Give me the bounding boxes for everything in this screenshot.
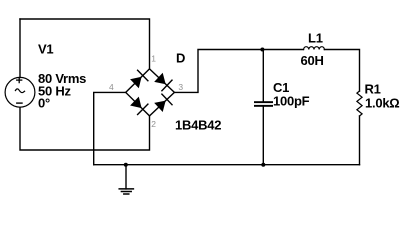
- resistor R1 zigzag: [357, 91, 362, 116]
- svg-text:1: 1: [151, 53, 156, 63]
- wire bridge pin 3 to node D and top-right rail: [174, 50, 303, 93]
- diode D2 (pin1 anode to pin3 cathode): [154, 73, 166, 84]
- junction node D top rail: [260, 48, 264, 52]
- ground stem: [125, 165, 127, 189]
- svg-text:60H: 60H: [301, 53, 324, 68]
- capacitor C1 plates: [254, 101, 273, 103]
- wire bottom ground rail: [94, 164, 360, 166]
- diode D1 (pin4 anode to pin1 cathode): [130, 77, 142, 89]
- wire C1 bottom lead: [262, 107, 264, 165]
- V1 plus sign: [17, 79, 22, 81]
- svg-text:0°: 0°: [38, 96, 50, 111]
- wire top rail V1+ to bridge pin 1: [20, 19, 150, 69]
- wire V1 bottom to bridge pin 2: [20, 107, 150, 150]
- svg-text:2: 2: [151, 119, 156, 129]
- ground bar 2: [121, 191, 131, 193]
- bridge D diamond outline: [126, 69, 175, 116]
- svg-text:V1: V1: [38, 42, 53, 57]
- diode D4 (pin2 anode to pin3 cathode): [154, 101, 166, 112]
- svg-text:4: 4: [109, 82, 114, 92]
- svg-text:1B4B42: 1B4B42: [175, 118, 221, 133]
- V1 minus sign: [17, 102, 22, 104]
- svg-text:3: 3: [178, 82, 183, 92]
- junction ground rail at ground symbol: [124, 163, 128, 167]
- junction ground rail at C1: [261, 163, 265, 167]
- svg-text:1.0kΩ: 1.0kΩ: [365, 96, 399, 111]
- ground bar 1: [119, 188, 133, 190]
- inductor L1 coil: [304, 47, 325, 50]
- wire R1 bottom lead: [359, 116, 361, 165]
- ground bar 3: [124, 193, 129, 195]
- svg-text:100pF: 100pF: [273, 94, 310, 109]
- svg-text:L1: L1: [308, 31, 323, 46]
- wire C1 top lead: [262, 50, 264, 102]
- diode D3 (pin4 anode to pin2 cathode): [130, 97, 142, 109]
- svg-text:D: D: [176, 50, 185, 65]
- V1 sine wave: [15, 89, 24, 93]
- svg-text:R1: R1: [365, 82, 381, 97]
- wire bridge pin 4 to ground rail: [94, 92, 126, 164]
- wire V1 top lead: [19, 19, 21, 78]
- wire inductor right lead to R1 top: [324, 50, 359, 92]
- voltage source V1 circle: [5, 77, 35, 107]
